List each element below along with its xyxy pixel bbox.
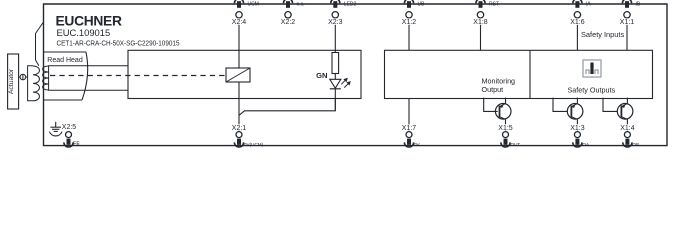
svg-text:Actuator: Actuator [8,68,15,94]
svg-text:X2:4: X2:4 [232,19,247,26]
pin label RST [489,2,499,8]
svg-text:Safety Inputs: Safety Inputs [581,30,624,39]
wire box to X1:7 0V [408,99,410,132]
wire resistor to LED [334,74,336,80]
safety icon [583,60,601,77]
resistor R1 [332,53,339,74]
svg-text:X2:5: X2:5 [62,124,77,131]
EUCHNER logo [56,13,122,28]
wire X1:2 UB to box [408,18,410,50]
wire LED to 0V branch [334,89,336,111]
read head barrel [49,66,128,91]
connector X1:1 [616,0,638,26]
read head coil L2 [43,66,49,90]
connector X1:3 [566,124,588,147]
read head label [47,57,83,64]
label Safety Inputs [581,30,624,39]
pin label OA [582,142,590,147]
wire relay to X2:1 [238,82,240,132]
read head electronics box [128,50,361,98]
wire X1:1 IB to box [626,18,628,50]
svg-text:Output: Output [482,85,504,94]
connector X2:3 [324,0,346,26]
schematic outer frame [44,4,668,146]
connector X1:6 [566,0,588,26]
LED V1 green [330,78,351,89]
svg-text:Read Head: Read Head [47,57,83,64]
pin label LED2 [344,2,357,8]
pin label IB [636,2,641,8]
svg-text:0V(UCM): 0V(UCM) [244,142,264,147]
label Monitoring Output [482,76,516,94]
ground functional earth [49,122,62,136]
svg-text:X1:1: X1:1 [620,19,635,26]
connector X1:4 [616,124,638,147]
actuator coil bracket [28,66,33,101]
read head housing [44,52,88,100]
connector X1:5 [495,124,517,147]
svg-text:IB: IB [636,2,641,8]
connector X1:7 [398,124,420,147]
transistor Q2 safety OA [553,98,583,132]
relay K1 [226,68,250,82]
pin label OB [632,142,639,147]
transistor Q1 monitoring [484,98,511,132]
actuator coil L1 [33,66,39,101]
wire 0V branch to LED [239,99,335,116]
svg-text:UB: UB [418,2,426,8]
svg-text:X1:3: X1:3 [570,125,585,132]
svg-text:OA: OA [582,142,590,147]
pin label UCM [248,2,259,8]
label Safety Outputs [568,85,616,94]
svg-text:X2:3: X2:3 [328,19,343,26]
connector X2:5 [62,124,77,147]
output module box [385,50,653,98]
pin label FE [73,141,80,147]
svg-text:n.c.: n.c. [297,2,305,8]
transponder circle symbol [20,74,26,80]
svg-text:RST: RST [489,2,499,8]
connector X2:2 [281,0,296,26]
svg-text:UCM: UCM [248,2,259,8]
svg-text:EUCHNER: EUCHNER [56,13,122,28]
pin label n.c. [297,2,305,8]
pin label 0V [414,142,421,147]
svg-text:GN: GN [316,71,327,80]
svg-text:LED2: LED2 [344,2,357,8]
svg-text:CET1-AR-CRA-CH-50X-SG-C2290-10: CET1-AR-CRA-CH-50X-SG-C2290-109015 [57,38,180,47]
wire X2:4 to relay [238,18,240,68]
title EUC.109015 [57,27,111,38]
connector X1:8 [470,0,492,26]
svg-text:EUC.109015: EUC.109015 [57,27,111,38]
divider monitoring / safety [529,50,531,98]
svg-text:FE: FE [73,141,80,147]
pin label OUT [511,142,521,147]
svg-text:Safety Outputs: Safety Outputs [568,85,616,94]
svg-text:OUT: OUT [511,142,521,147]
svg-text:OB: OB [632,142,639,147]
connector X1:2 [398,0,420,26]
transistor Q3 safety OB [603,98,633,132]
svg-text:X1:8: X1:8 [473,19,488,26]
wire actuator to transponder [19,76,21,78]
wire frame-to-actuator jog [36,22,44,66]
svg-text:X1:2: X1:2 [402,19,417,26]
svg-text:X2:1: X2:1 [232,125,247,132]
svg-text:X1:4: X1:4 [620,125,635,132]
label GN [316,71,327,80]
wire transponder to actuator coil [26,76,28,78]
dashed coupling line [50,75,226,77]
wire X2:3 to resistor [334,18,336,53]
subtitle CET1 part number [57,38,180,47]
svg-text:0V: 0V [414,142,421,147]
actuator box [8,54,19,109]
connector X2:4 [228,0,250,26]
svg-text:X1:7: X1:7 [402,125,417,132]
pin label IA [586,2,591,8]
svg-text:X1:5: X1:5 [498,125,513,132]
svg-text:X2:2: X2:2 [281,19,296,26]
svg-text:Monitoring: Monitoring [482,76,516,85]
svg-text:X1:6: X1:6 [570,19,585,26]
connector X2:1 [228,124,250,147]
pin label 0V(UCM) [244,142,264,147]
wire X1:6 IA to box [576,18,578,50]
svg-text:IA: IA [586,2,591,8]
wire X1:8 RST to box [480,18,482,50]
pin label UB [418,2,426,8]
